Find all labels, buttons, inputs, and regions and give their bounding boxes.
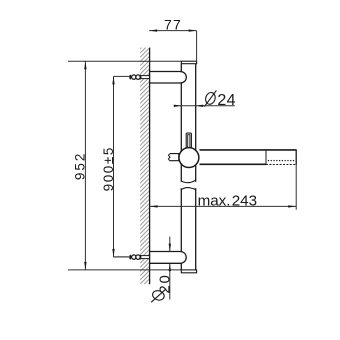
svg-text:24: 24 <box>217 92 235 109</box>
rail tube (vertical slide bar) <box>181 64 195 270</box>
svg-text:max.243: max.243 <box>198 192 257 209</box>
svg-text:952: 952 <box>72 152 87 181</box>
hand shower (horizontal) <box>200 149 297 165</box>
dimension 952 <box>72 61 87 270</box>
svg-text:900±5: 900±5 <box>101 146 116 191</box>
dimension 900±5 <box>101 76 129 257</box>
rail bottom end cap <box>181 270 196 273</box>
top wall bracket <box>150 72 187 84</box>
bottom mounting screw <box>114 255 150 260</box>
wall surface edge <box>149 48 151 285</box>
slider lock lever <box>186 133 191 149</box>
wire: extension line, top of 952 dim <box>68 60 181 62</box>
dimension 77 <box>149 17 196 64</box>
dimension Ø20 <box>151 237 173 303</box>
dimension max.243 <box>150 165 297 210</box>
svg-text:77: 77 <box>164 17 182 33</box>
wall section with hatching <box>140 48 149 285</box>
bottom wall bracket <box>150 252 187 264</box>
dimension Ø24 <box>174 90 236 108</box>
rail break (wavy break lines) <box>180 180 197 189</box>
top mounting screw <box>114 75 150 80</box>
rail top end cap <box>181 61 196 64</box>
wire: extension line, bottom of 952 dim <box>68 269 181 271</box>
broken-off stub at slider left <box>168 154 178 161</box>
slider body (circle) <box>179 148 199 168</box>
svg-text:20: 20 <box>156 273 173 293</box>
hand shower grip dots <box>268 160 294 161</box>
